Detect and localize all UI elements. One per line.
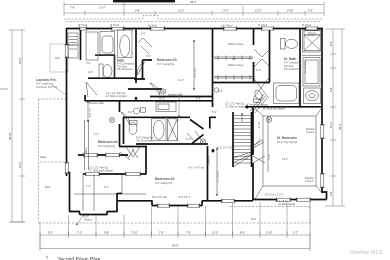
svg-text:2'-0": 2'-0" — [175, 120, 180, 123]
svg-text:21'-0": 21'-0" — [178, 79, 184, 82]
svg-text:2'-0": 2'-0" — [141, 33, 146, 36]
window boxes on top wall — [65, 27, 324, 207]
svg-text:4' x 4': 4' x 4' — [308, 35, 315, 38]
hall top wall — [128, 88, 162, 90]
mbath lower door X — [254, 78, 269, 98]
stairwell railing lines — [85, 120, 89, 170]
bedroom3 door swing — [150, 83, 160, 95]
mbath toilet top — [281, 39, 286, 50]
svg-text:W. Head and Wdges: W. Head and Wdges — [246, 104, 269, 107]
svg-text:2'-8": 2'-8" — [244, 158, 249, 161]
svg-text:17'-0": 17'-0" — [99, 6, 106, 10]
svg-text:12' Hdrm w/ Angles: 12' Hdrm w/ Angles — [225, 105, 246, 108]
svg-text:M. Bedroom: M. Bedroom — [277, 136, 297, 140]
windows mbedroom bottom — [277, 198, 290, 201]
tray left dim — [267, 116, 269, 172]
mbath tub lower — [274, 83, 300, 104]
left edge tick — [0, 88, 8, 90]
bath3 angled closet — [138, 38, 152, 54]
top dim ticks — [64, 2, 324, 17]
bay right corner — [117, 193, 122, 195]
svg-text:W. Wind: W. Wind — [148, 25, 158, 28]
right dimension line 1 — [332, 29, 334, 206]
svg-text:11'-10 1/2": 11'-10 1/2" — [217, 171, 220, 182]
svg-text:4'-6": 4'-6" — [329, 191, 333, 196]
bedroom2 door swing — [120, 152, 130, 160]
hall east wall — [210, 117, 216, 129]
svg-text:Dressing Wall: Dressing Wall — [89, 102, 104, 105]
shower stall — [303, 30, 323, 52]
svg-text:10'-8 1/2" S: 10'-8 1/2" S — [178, 196, 191, 199]
svg-text:5'-6": 5'-6" — [329, 87, 333, 92]
svg-text:4'-0": 4'-0" — [104, 186, 109, 189]
stair west rail wall — [232, 112, 234, 167]
svg-text:M. Lavatory: M. Lavatory — [304, 60, 307, 73]
svg-text:Tile To Ceiling: Tile To Ceiling — [136, 140, 152, 143]
bay interior lines — [74, 174, 146, 211]
windows left wall — [65, 45, 68, 57]
mbath inner wall — [269, 29, 271, 82]
svg-text:12' Hdrm w/ Angled: 12' Hdrm w/ Angled — [106, 95, 127, 98]
laundry machines — [86, 32, 98, 60]
bath1 toilet — [99, 64, 103, 78]
bath2 shower — [168, 119, 178, 141]
bottom extension lines — [40, 202, 310, 249]
bay bottom wall — [69, 212, 118, 215]
svg-text:7'-8": 7'-8" — [70, 6, 75, 10]
sink circle hall — [134, 108, 140, 114]
bedroom4 bottom wall — [78, 154, 128, 156]
top dim texts — [70, 0, 313, 13]
svg-text:8'-0": 8'-0" — [240, 231, 245, 235]
svg-text:1st Walk Typical: 1st Walk Typical — [278, 203, 296, 206]
svg-text:2-6x4-6: 2-6x4-6 — [305, 180, 314, 183]
mbath wet wall — [299, 28, 301, 107]
window labels top — [78, 24, 312, 28]
windows bedroom2 bottom — [158, 204, 169, 207]
svg-text:94'-0": 94'-0" — [190, 0, 197, 4]
svg-text:2'-8": 2'-8" — [88, 71, 93, 74]
bath1 wc walls — [95, 55, 115, 78]
stair east wall — [251, 112, 253, 167]
vanity — [303, 58, 320, 87]
left dimension line 2 — [21, 30, 23, 222]
svg-text:W. Head: W. Head — [110, 24, 120, 27]
middle long wall — [85, 100, 212, 102]
svg-text:OneKey MLS: OneKey MLS — [350, 250, 382, 256]
svg-text:9'-8": 9'-8" — [104, 231, 109, 235]
stair railing hatch — [250, 94, 267, 148]
svg-text:21'-0": 21'-0" — [178, 9, 185, 13]
top dimension line 1 — [64, 3, 324, 5]
svg-text:W. Head and Wdges: W. Head and Wdges — [263, 108, 286, 111]
svg-text:Roof: Roof — [45, 186, 50, 189]
svg-text:6'-2": 6'-2" — [308, 9, 313, 13]
bay left wall — [69, 172, 71, 212]
chute closet boxes — [68, 33, 78, 45]
window sill ticks — [64, 26, 325, 208]
mbath entry double door — [254, 49, 270, 67]
stair arrow — [241, 113, 243, 122]
hall door swing — [187, 131, 203, 142]
windows bedroom4 bottom — [84, 154, 97, 157]
svg-text:Walk-in Closet: Walk-in Closet — [228, 43, 244, 46]
svg-text:7'-0": 7'-0" — [77, 231, 82, 235]
bay top inner wall — [83, 173, 146, 175]
svg-text:2'-4": 2'-4" — [186, 138, 191, 141]
svg-text:4'-0" x 4'-0" top: 4'-0" x 4'-0" top — [188, 167, 205, 170]
svg-text:5'-5": 5'-5" — [232, 58, 237, 61]
windows right wall — [321, 125, 324, 138]
left outer wall — [66, 28, 68, 176]
bath1 tub — [118, 30, 133, 58]
svg-text:Railing: Railing — [85, 147, 88, 155]
misc small annotations — [84, 33, 315, 222]
svg-text:11'-0": 11'-0" — [212, 231, 218, 235]
closet bottom wall / mbath top — [212, 82, 270, 84]
mbath toilet lower — [253, 89, 264, 101]
svg-text:6'-2": 6'-2" — [196, 98, 201, 101]
svg-text:5'-5": 5'-5" — [218, 90, 223, 93]
bath2 dim line — [178, 95, 180, 117]
svg-text:48'-10": 48'-10" — [8, 132, 12, 140]
svg-text:12'-2": 12'-2" — [255, 9, 262, 13]
mbedroom top wall — [245, 106, 322, 108]
svg-text:9'-0" Ceiling Hgt: 9'-0" Ceiling Hgt — [98, 145, 115, 148]
bath3 walls — [134, 60, 152, 79]
mbath toilet right — [304, 88, 321, 104]
svg-text:Dressing: Dressing — [208, 155, 211, 165]
svg-text:5'-0": 5'-0" — [86, 62, 91, 65]
bottom dimension line 1 — [40, 234, 310, 236]
middle wall left stub — [84, 95, 86, 101]
hall angled wall 1 — [190, 120, 204, 130]
svg-text:9'-10": 9'-10" — [287, 9, 294, 13]
right dimension line 2 — [341, 29, 343, 206]
svg-text:5'-10": 5'-10" — [258, 122, 261, 128]
roof dashed outline — [39, 16, 323, 224]
scan header bar — [113, 0, 175, 2]
cedar closet — [156, 102, 176, 112]
svg-text:9'-8": 9'-8" — [135, 9, 140, 13]
svg-text:Walk-in Closet: Walk-in Closet — [228, 64, 244, 67]
hall angled wall 2 — [192, 135, 204, 144]
bedroom2 top closet wall — [119, 146, 147, 148]
bedroom2 closet doors — [126, 147, 140, 158]
fan circles — [109, 88, 271, 144]
svg-text:10'-0 Wind: 10'-0 Wind — [221, 25, 233, 28]
roof box beside laundry — [50, 44, 68, 72]
svg-text:21'-4": 21'-4" — [282, 158, 288, 161]
chute column wall — [80, 28, 82, 60]
svg-text:38'-11 1/2" S-Dim: 38'-11 1/2" S-Dim — [216, 147, 235, 150]
svg-text:20'-6 1/2 x 1'-0" S: 20'-6 1/2 x 1'-0" S — [265, 194, 284, 197]
svg-text:Dressing Wall: Dressing Wall — [168, 94, 183, 97]
svg-text:9'-0" Ceiling Hgt: 9'-0" Ceiling Hgt — [157, 63, 174, 66]
bedroom4 dim arrow — [87, 101, 89, 122]
svg-text:12' Hdrm (with Angles): 12' Hdrm (with Angles) — [89, 169, 113, 172]
bath2 top wall — [123, 116, 190, 118]
svg-text:7'-0": 7'-0" — [159, 231, 164, 235]
svg-text:7'-4": 7'-4" — [86, 185, 91, 188]
svg-text:5'-0": 5'-0" — [212, 111, 217, 114]
bay right wall — [116, 193, 118, 212]
left dimension line 1 — [11, 30, 13, 222]
bedroom4 door swing — [121, 112, 130, 124]
bedroom3 bottom wall — [150, 96, 212, 98]
bottom dim texts — [48, 231, 298, 248]
svg-text:W. Head: W. Head — [78, 24, 88, 27]
svg-text:6'-8": 6'-8" — [128, 111, 133, 114]
bedroom2 left wall — [145, 146, 147, 175]
left dim ticks — [9, 30, 25, 222]
bath2 left wall — [123, 117, 125, 144]
svg-text:Typical: Typical — [84, 219, 92, 222]
bedroom4 right wall — [119, 101, 121, 112]
svg-text:17'-0": 17'-0" — [268, 154, 271, 160]
svg-text:Laundry Rm.: Laundry Rm. — [36, 78, 57, 82]
right outer wall — [321, 28, 323, 193]
svg-text:Bedroom #3: Bedroom #3 — [157, 58, 177, 62]
closet east wall — [253, 29, 255, 82]
svg-text:5'-10": 5'-10" — [266, 231, 273, 235]
svg-text:17'-0": 17'-0" — [222, 9, 229, 13]
svg-text:Bedroom #2: Bedroom #2 — [155, 177, 175, 181]
right bottom step — [317, 192, 327, 200]
stairs treads — [233, 113, 251, 167]
left bottom connector — [10, 221, 25, 223]
svg-text:Second Floor Plan: Second Floor Plan — [58, 256, 100, 260]
shower vanity divider — [302, 54, 322, 56]
svg-text:35'-1 1/2" Flat: 35'-1 1/2" Flat — [152, 196, 167, 199]
svg-text:12'-4 1/2": 12'-4 1/2" — [194, 68, 197, 78]
svg-text:Roof: Roof — [55, 57, 60, 60]
svg-text:9'-0" Ceiling Hgt: 9'-0" Ceiling Hgt — [155, 182, 172, 185]
bay left connector — [66, 172, 70, 174]
svg-text:9'-0": 9'-0" — [48, 231, 53, 235]
bedroom2 bottom wall — [117, 201, 253, 206]
svg-text:Ridge: Ridge — [40, 156, 47, 159]
windows bay top wall — [86, 173, 99, 176]
svg-text:M. Bath: M. Bath — [284, 57, 296, 61]
svg-text:Tile To Exterior: Tile To Exterior — [117, 68, 133, 71]
svg-text:7'-10": 7'-10" — [131, 231, 138, 235]
right dim ticks — [325, 29, 345, 206]
bath1 right wall — [135, 29, 137, 83]
right dim texts — [329, 41, 342, 196]
mbedroom left wall — [252, 107, 254, 155]
leader arrow — [76, 215, 84, 225]
bath1 shower stall — [100, 32, 115, 55]
mbedroom door swing — [253, 156, 265, 163]
bath2 bottom wall — [136, 143, 208, 145]
svg-text:2'-7": 2'-7" — [293, 231, 298, 235]
laundry wing bottom wall — [88, 77, 136, 79]
svg-text:43'-4": 43'-4" — [338, 123, 342, 130]
laundry door swing — [86, 82, 97, 97]
bedroom2 right wall — [207, 146, 209, 201]
svg-text:3'-6": 3'-6" — [146, 55, 151, 58]
bedroom3 centerline — [193, 40, 195, 90]
stair winders — [233, 152, 251, 167]
svg-text:8'-2": 8'-2" — [329, 41, 333, 46]
M.bedroom bottom wall — [252, 199, 318, 201]
bottom dim ticks — [40, 231, 310, 251]
landing dim line — [216, 148, 218, 196]
svg-text:W. Wind: W. Wind — [258, 24, 268, 27]
svg-text:10'-0": 10'-0" — [329, 121, 333, 128]
svg-text:3'-0": 3'-0" — [94, 133, 99, 136]
svg-text:22'-2": 22'-2" — [18, 161, 22, 168]
svg-text:24'-2": 24'-2" — [18, 57, 22, 64]
room labels — [36, 32, 316, 185]
tray ceiling — [263, 116, 316, 186]
svg-text:7'-0": 7'-0" — [186, 231, 191, 235]
svg-text:Bedroom #4: Bedroom #4 — [98, 140, 118, 144]
svg-text:10'-0": 10'-0" — [159, 98, 165, 101]
svg-text:3'-0": 3'-0" — [256, 69, 261, 72]
svg-text:2-6x4-6: 2-6x4-6 — [306, 131, 315, 134]
bath2 tub — [152, 119, 167, 141]
svg-text:Tile To Exterior: Tile To Exterior — [284, 68, 300, 71]
bath3 door arc — [137, 62, 144, 75]
mbath wic shelves — [214, 56, 253, 80]
svg-text:6'-8 1/2": 6'-8 1/2" — [89, 108, 92, 117]
svg-text:Roof: Roof — [251, 218, 256, 221]
svg-text:2: 2 — [46, 256, 48, 260]
bedroom3 right wall — [212, 29, 214, 107]
top dimension line 2 — [64, 12, 324, 14]
door tag diamonds — [134, 97, 254, 153]
top outer wall — [66, 28, 323, 30]
svg-text:94'-0": 94'-0" — [172, 244, 179, 248]
bottom overall dimension line — [40, 248, 310, 250]
svg-text:13'-0" Tray Clg Hgt: 13'-0" Tray Clg Hgt — [277, 141, 297, 144]
bath2 toilet — [129, 123, 137, 135]
left dim texts — [8, 57, 22, 168]
svg-text:W. Wind: W. Wind — [302, 24, 312, 27]
